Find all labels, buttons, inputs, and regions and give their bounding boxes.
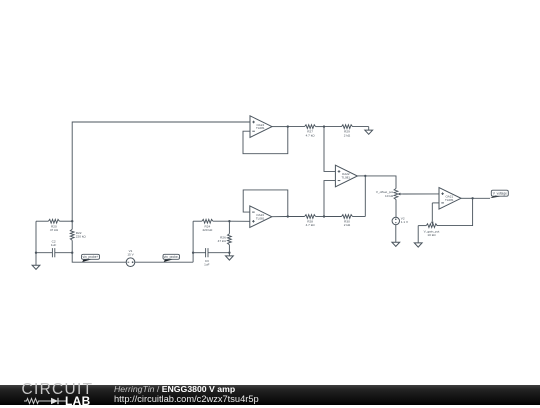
- voltage source V1 15V: [126, 249, 135, 267]
- wire: feedback to gain pot right end: [437, 198, 473, 225]
- wire: signal node to source V1: [72, 253, 126, 263]
- svg-text:V_voltage: V_voltage: [493, 191, 507, 195]
- resistor R22 220k: [70, 221, 86, 253]
- ground (top divider): [365, 130, 373, 134]
- wire: feedback R30 to OA22 output: [364, 176, 366, 217]
- svg-text:OA23TL081: OA23TL081: [256, 213, 265, 220]
- svg-text:vin_probe-: vin_probe-: [164, 255, 179, 259]
- wire: OA22 output: [357, 175, 365, 177]
- svg-text:R284.7 kΩ: R284.7 kΩ: [306, 220, 316, 228]
- node junction C3 left: [192, 252, 194, 254]
- ground (V2): [392, 242, 400, 246]
- wire: to top ground: [368, 127, 370, 131]
- svg-text:vin_probe+: vin_probe+: [83, 255, 99, 259]
- resistor R26 47k: [218, 221, 232, 253]
- footer url text: [114, 395, 259, 404]
- svg-text:OA22TL081: OA22TL081: [341, 172, 350, 179]
- svg-text:V115 V: V115 V: [127, 249, 134, 257]
- svg-text:OA21TL081: OA21TL081: [445, 195, 454, 202]
- op-amp OA24 TL081 (buffer 1): [250, 116, 272, 138]
- wire: V1 to input network 2: [135, 261, 193, 263]
- wire: down to ground: [35, 253, 37, 266]
- wire: OA22 output to offset pot: [365, 176, 396, 189]
- node junction R22 bottom / C2 right: [71, 252, 73, 254]
- op-amp OA21 TL081 (output): [439, 188, 461, 210]
- wire: OA21 output: [461, 197, 473, 199]
- wire: V2 to ground: [395, 225, 397, 243]
- node junction R24/R26/op-amp: [228, 220, 230, 222]
- potentiometer V_offset_pot 10k: [376, 189, 403, 200]
- wire: - input down to gain pot wiper: [431, 203, 433, 222]
- CircuitLab logo: CIRCUIT: [22, 382, 94, 397]
- CircuitLab logo: resistor-diode squiggle: [24, 397, 68, 405]
- node junction divider top: [323, 125, 325, 127]
- svg-text:OA24TL081: OA24TL081: [256, 123, 265, 130]
- resistor R28 4.7k: [288, 215, 324, 228]
- wire: OA23 output: [272, 216, 288, 218]
- svg-text:R24220 kΩ: R24220 kΩ: [202, 224, 213, 232]
- wire: OA22 - input down to bottom node: [324, 181, 335, 217]
- voltage source V2 1.1V: [392, 217, 409, 225]
- svg-text:V_gain_pot10 kΩ: V_gain_pot10 kΩ: [424, 229, 440, 237]
- wire: R20 left end down to ground rail: [35, 221, 37, 253]
- node junction OA22 output: [364, 175, 366, 177]
- wire: OA23 feedback loop to - input: [243, 190, 288, 217]
- wire: top node to OA22 + input: [324, 127, 335, 172]
- node junction OA24 output: [287, 125, 289, 127]
- CircuitLab logo: LAB: [65, 396, 91, 408]
- wire: OA21 - input: [432, 202, 439, 204]
- wire: vin+ node up to op-amp OA24 + input: [72, 122, 250, 221]
- node junction divider bottom: [323, 215, 325, 217]
- svg-text:C31uF: C31uF: [204, 259, 209, 267]
- wire: offset pot bottom to V2: [395, 200, 397, 218]
- svg-text:R2047 kΩ: R2047 kΩ: [50, 224, 59, 232]
- potentiometer V_gain_pot 10k: [418, 222, 439, 237]
- wire: output to V_voltage flag: [473, 197, 490, 199]
- svg-text:R292 kΩ: R292 kΩ: [344, 130, 351, 138]
- wire: OA24 output: [272, 126, 288, 128]
- op-amp OA22 TL081 (difference amp): [335, 165, 357, 187]
- op-amp OA23 TL081 (buffer 2): [250, 206, 272, 228]
- node flag vin_probe+: [82, 254, 100, 262]
- node flag vin_probe-: [163, 254, 180, 262]
- wire: to OA23 + input: [229, 220, 249, 222]
- node junction R26 bottom / C3 right / ground: [228, 252, 230, 254]
- resistor R29 2k: [324, 125, 369, 138]
- node junction OA23 output: [287, 215, 289, 217]
- resistor R24 220k: [193, 219, 229, 232]
- node junction R20/R22/long wire: [71, 220, 73, 222]
- ground (input network 2): [226, 253, 234, 260]
- wire: gain pot left end to ground: [417, 226, 419, 243]
- node junction C2 left / ground: [35, 252, 37, 254]
- resistor R27 4.7k: [288, 125, 324, 138]
- capacitor C3 1uF: [193, 248, 229, 266]
- resistor R20 47k: [36, 219, 72, 232]
- capacitor C2 1uF: [36, 240, 72, 258]
- ground (gain pot): [414, 243, 422, 247]
- node flag V_voltage: [490, 190, 508, 198]
- resistor R30 2k: [324, 215, 365, 228]
- svg-text:R302 kΩ: R302 kΩ: [344, 220, 351, 228]
- wire: offset pot wiper to OA21 + input: [403, 193, 439, 195]
- footer bar: [0, 385, 540, 406]
- ground (input network 1): [32, 265, 40, 269]
- node junction OA21 output: [471, 197, 473, 199]
- svg-text:C21uF: C21uF: [51, 240, 56, 248]
- svg-text:R274.7 kΩ: R274.7 kΩ: [306, 130, 316, 138]
- wire: signal up network 2: [192, 221, 194, 262]
- svg-text:R22220 kΩ: R22220 kΩ: [76, 231, 87, 239]
- svg-text:R2647 kΩ: R2647 kΩ: [218, 235, 227, 243]
- wire: OA24 feedback loop to - input: [243, 127, 288, 154]
- svg-text:V_offset_pot10 kΩ: V_offset_pot10 kΩ: [376, 190, 394, 198]
- footer byline text: [114, 385, 235, 394]
- svg-text:V21.1 V: V21.1 V: [401, 217, 409, 225]
